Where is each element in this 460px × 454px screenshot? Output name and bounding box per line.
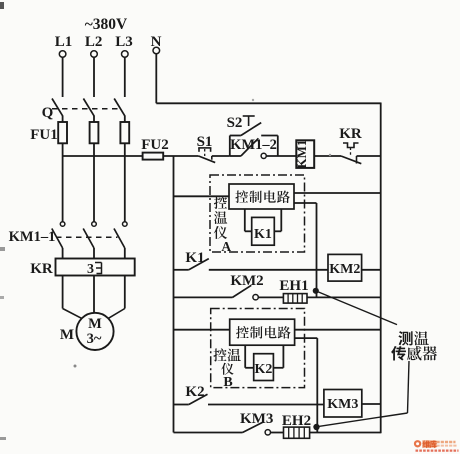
- svg-text:KM1: KM1: [294, 140, 309, 169]
- svg-text:K1: K1: [254, 227, 272, 242]
- svg-text:FU1: FU1: [30, 127, 58, 143]
- svg-text:3: 3: [87, 262, 94, 277]
- svg-text:K1: K1: [185, 250, 204, 266]
- svg-text:~380V: ~380V: [85, 16, 128, 33]
- svg-text:KM2: KM2: [230, 273, 263, 289]
- svg-text:KR: KR: [339, 126, 362, 142]
- svg-text:KM3: KM3: [327, 397, 358, 412]
- svg-text:L2: L2: [85, 34, 103, 50]
- svg-text:KM1‒2: KM1‒2: [230, 137, 277, 153]
- svg-text:Q: Q: [42, 105, 54, 121]
- svg-text:KM1‒1: KM1‒1: [9, 229, 56, 245]
- svg-text:KM2: KM2: [329, 262, 360, 277]
- svg-text:L3: L3: [115, 34, 133, 50]
- svg-text:A: A: [221, 239, 231, 254]
- svg-text:B: B: [223, 375, 232, 390]
- svg-text:EH1: EH1: [279, 278, 308, 294]
- svg-text:KR: KR: [30, 261, 53, 277]
- svg-text:3~: 3~: [87, 331, 102, 347]
- svg-text:L1: L1: [55, 34, 73, 50]
- svg-text:M: M: [88, 316, 102, 332]
- svg-text:S2: S2: [227, 115, 243, 131]
- svg-text:FU2: FU2: [141, 137, 169, 153]
- svg-text:M: M: [60, 327, 74, 343]
- svg-text:K2: K2: [255, 362, 273, 377]
